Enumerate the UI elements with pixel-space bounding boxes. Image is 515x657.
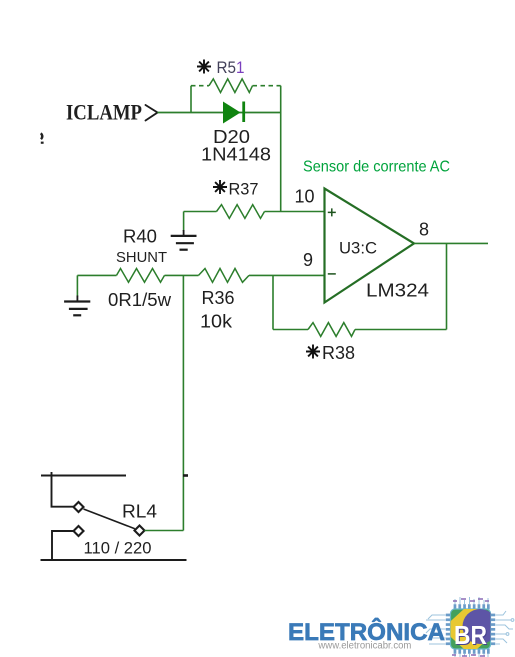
svg-text:R36: R36 — [202, 288, 235, 308]
asterisk for R51 — [197, 60, 211, 74]
chip pins — [446, 604, 495, 654]
svg-text:1N4148: 1N4148 — [201, 145, 271, 165]
wire relay common to vertical — [145, 530, 184, 532]
op-amp U3:C — [325, 189, 415, 303]
svg-text:10: 10 — [295, 186, 315, 206]
stub on green wire at rail level — [183, 474, 188, 477]
ground (R40) — [64, 302, 90, 316]
wire pin9 row: left lead to R40 — [77, 274, 116, 276]
contact diamond lower-left — [74, 526, 84, 536]
svg-text:8: 8 — [419, 220, 429, 240]
wire vertical node to pin10 row — [280, 113, 282, 212]
wire down from pin9 row to ground (left) — [76, 275, 78, 296]
relay bottom rail — [41, 559, 187, 561]
svg-text:9: 9 — [303, 250, 313, 270]
ground (R37) — [171, 236, 197, 250]
svg-text:U3:C: U3:C — [339, 239, 377, 258]
logo traces top — [455, 597, 488, 604]
asterisk for R38 — [306, 345, 320, 359]
wire pin10 row right lead — [265, 211, 324, 213]
svg-text:BR: BR — [454, 620, 487, 650]
svg-text:R51: R51 — [217, 58, 245, 77]
resistor R38 zigzag — [308, 323, 355, 337]
asterisk for R37 — [213, 180, 227, 194]
contact diamond common (right) — [135, 526, 145, 536]
svg-text:www.eletronicabr.com: www.eletronicabr.com — [317, 641, 411, 652]
logo traces right — [496, 611, 514, 644]
svg-text:R40: R40 — [123, 227, 157, 247]
switch arm — [84, 509, 135, 529]
logo traces bottom — [455, 654, 488, 657]
wire pin10 row left lead — [184, 211, 217, 213]
svg-text:10k: 10k — [200, 312, 233, 332]
svg-text:R38: R38 — [322, 343, 355, 363]
input port chevron — [146, 105, 158, 121]
wire R51 branch left vertical — [190, 86, 192, 113]
resistor R36 zigzag — [199, 269, 250, 283]
wire feedback row right lead — [355, 329, 447, 331]
svg-text:SHUNT: SHUNT — [116, 249, 167, 266]
logo text BR on chip — [454, 620, 488, 651]
svg-text:ICLAMP: ICLAMP — [66, 100, 142, 125]
svg-text:LM324: LM324 — [366, 280, 429, 300]
wire down from R37 to ground — [183, 212, 185, 232]
wire feedback row left lead — [273, 329, 308, 331]
svg-text:0R1/5w: 0R1/5w — [108, 290, 172, 310]
logo trace glyphs bottom (purple) — [452, 655, 485, 656]
wire junction down to relay — [182, 275, 184, 530]
wire feedback rise to output — [446, 243, 448, 329]
svg-text:Sensor de corrente AC: Sensor de corrente AC — [303, 158, 450, 175]
plus input mark — [328, 208, 336, 216]
relay RL4: top rail — [41, 475, 126, 477]
resistor R51 zigzag — [209, 79, 253, 93]
wire R36 to op-amp pin9 — [249, 274, 324, 276]
diode D20 — [223, 102, 245, 124]
wire feedback drop from pin9 row — [272, 275, 274, 329]
relay lower-left lead — [52, 531, 74, 560]
wire main horizontal ICLAMP to node — [158, 112, 281, 114]
svg-text:110 / 220: 110 / 220 — [84, 538, 152, 557]
relay left drop — [52, 472, 74, 507]
resistor R37 zigzag — [217, 205, 265, 219]
contact diamond upper — [74, 502, 84, 512]
chip body (Brazil flag) — [442, 603, 499, 655]
wire R51 branch right vertical — [280, 86, 282, 113]
minus input mark — [328, 273, 336, 275]
logo trace glyphs top (purple) — [453, 599, 489, 601]
wire dashed right lead of R51 — [253, 85, 281, 87]
wire output pin8 — [414, 242, 488, 244]
wire dashed left lead of R51 — [191, 85, 209, 87]
logo traces left — [426, 615, 446, 644]
svg-text:R37: R37 — [229, 179, 259, 198]
svg-text:RL4: RL4 — [122, 502, 157, 522]
stray clipped glyph at left edge — [41, 133, 44, 143]
wire between R40 and R36 — [165, 274, 199, 276]
resistor R40 zigzag — [117, 269, 165, 283]
